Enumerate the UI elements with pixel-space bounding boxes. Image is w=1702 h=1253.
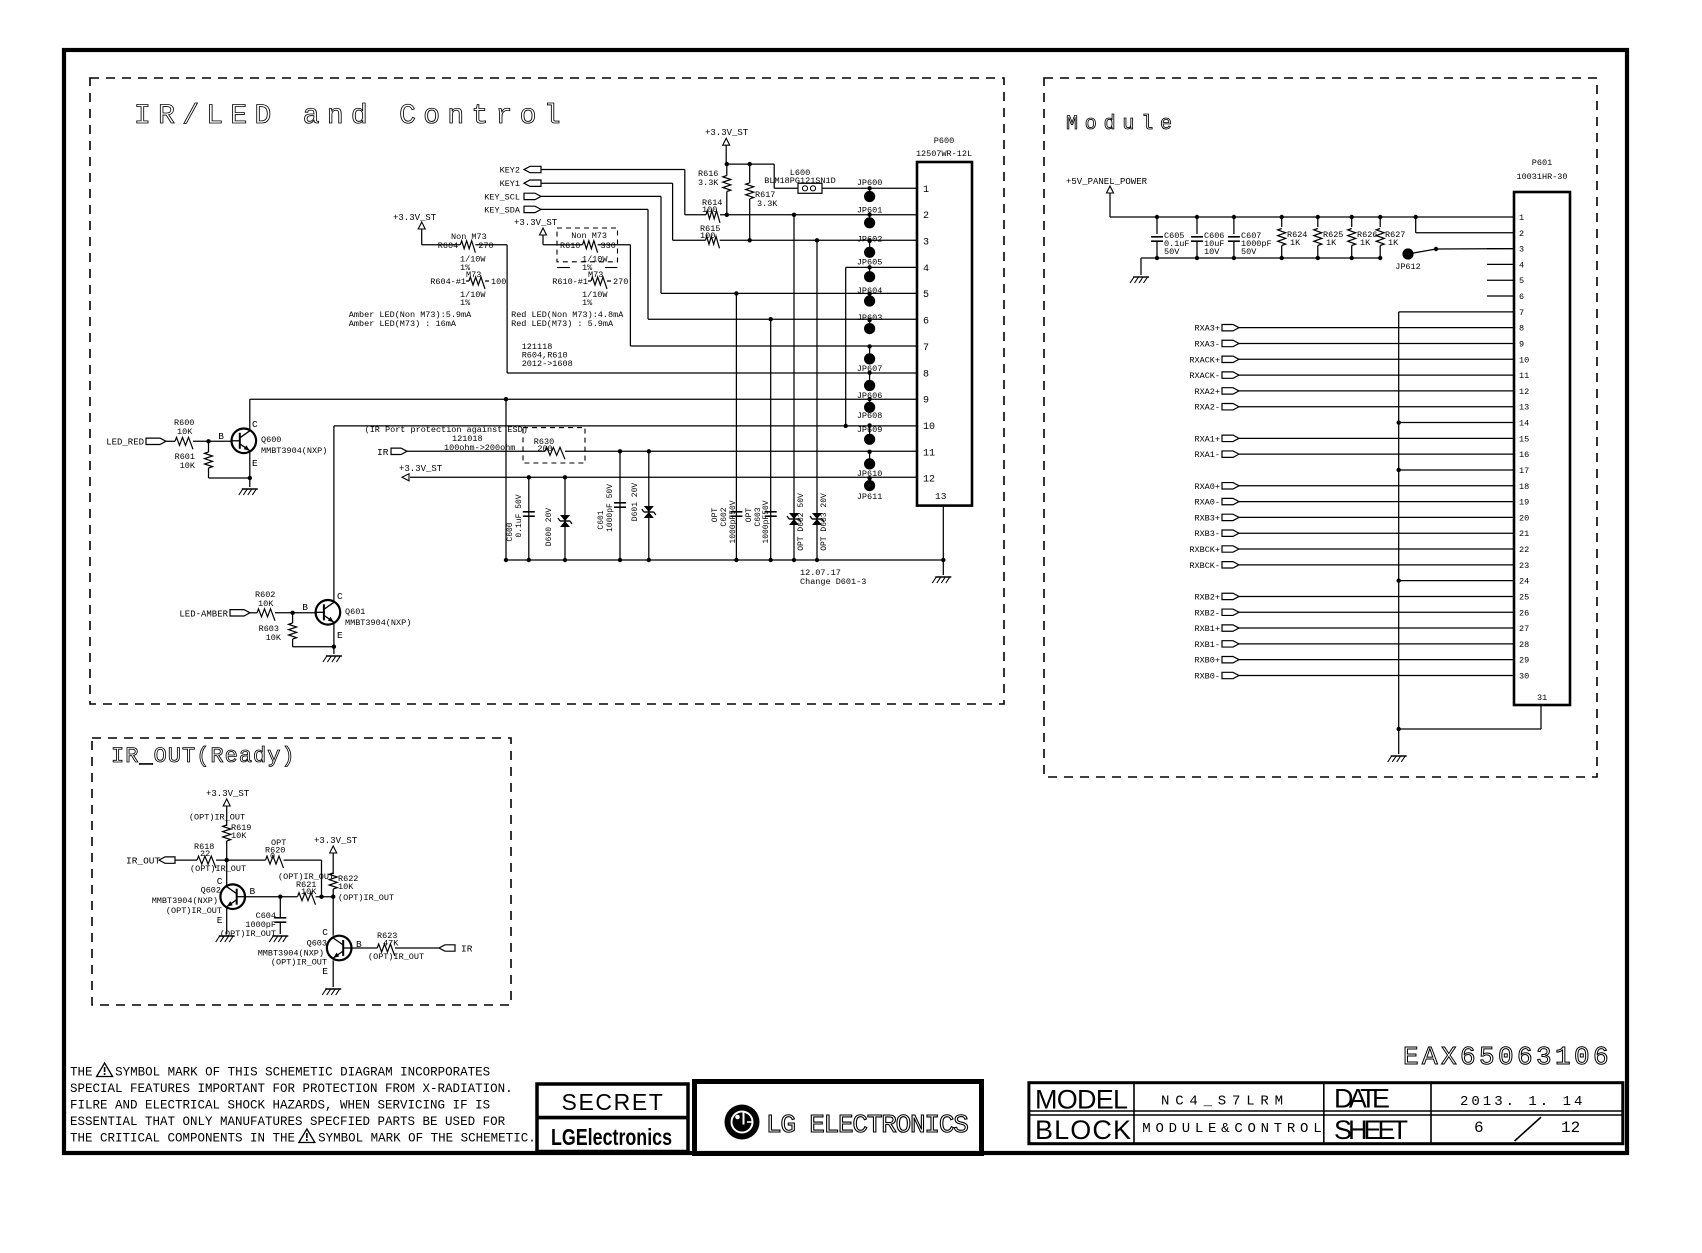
svg-text:MODEL: MODEL [1035,1085,1128,1115]
svg-text:16: 16 [1519,450,1529,460]
svg-text:12: 12 [1561,1119,1580,1137]
svg-text:(OPT)IR_OUT: (OPT)IR_OUT [368,952,424,962]
svg-text:11: 11 [1519,371,1529,381]
svg-text:RXA1+: RXA1+ [1194,434,1220,444]
svg-text:14: 14 [1519,419,1529,429]
svg-text:19: 19 [1519,498,1529,508]
svg-text:OPT: OPT [745,508,754,523]
svg-text:JP600: JP600 [857,178,883,188]
svg-text:4: 4 [923,264,929,275]
svg-text:C: C [252,419,258,430]
svg-text:10: 10 [1519,355,1529,365]
svg-text:Q602: Q602 [201,886,221,896]
svg-text:MMBT3904(NXP): MMBT3904(NXP) [261,446,327,456]
svg-text:100: 100 [702,205,717,215]
svg-text:15: 15 [1519,434,1529,444]
svg-text:11: 11 [923,448,935,459]
svg-text:LED-AMBER: LED-AMBER [179,609,228,619]
svg-text:200: 200 [537,444,552,454]
svg-text:17: 17 [1519,466,1529,476]
svg-text:330: 330 [601,241,616,251]
svg-text:SPECIAL FEATURES IMPORTANT FOR: SPECIAL FEATURES IMPORTANT FOR PROTECTIO… [70,1082,513,1096]
svg-text:+5V_PANEL_POWER: +5V_PANEL_POWER [1066,177,1148,187]
svg-text:IR_OUT: IR_OUT [126,856,161,867]
svg-text:B: B [250,886,256,897]
svg-text:26: 26 [1519,608,1529,618]
svg-text:SHEET: SHEET [1334,1115,1408,1145]
svg-text:(OPT)IR_OUT: (OPT)IR_OUT [190,864,246,874]
svg-text:10K: 10K [338,882,354,892]
svg-text:RXB1-: RXB1- [1194,640,1220,650]
svg-text:1K: 1K [1360,238,1371,248]
svg-text:RXACK-: RXACK- [1189,371,1220,381]
svg-text:JP601: JP601 [857,205,883,215]
svg-text:+3.3V_ST: +3.3V_ST [314,836,358,846]
svg-text:R610-#1: R610-#1 [552,277,588,287]
svg-text:+3.3V_ST: +3.3V_ST [393,213,437,223]
svg-text:25: 25 [1519,592,1529,602]
svg-text:0.1uF 50V: 0.1uF 50V [515,494,524,537]
svg-text:THE: THE [70,1066,93,1080]
svg-text:1K: 1K [1326,238,1337,248]
svg-text:RXB0-: RXB0- [1194,671,1220,681]
svg-text:12: 12 [923,475,935,486]
svg-text:LED_RED: LED_RED [106,438,144,448]
svg-text:FILRE AND ELECTRICAL SHOCK HAZ: FILRE AND ELECTRICAL SHOCK HAZARDS, WHEN… [70,1099,490,1113]
svg-text:C602: C602 [720,507,729,526]
svg-text:RXB0+: RXB0+ [1194,656,1220,666]
svg-text:13: 13 [935,491,947,502]
svg-text:KEY2: KEY2 [500,166,520,176]
svg-text:1000pF50V: 1000pF50V [762,500,771,543]
svg-text:22: 22 [200,849,210,859]
svg-text:100: 100 [491,277,506,287]
svg-text:R604: R604 [438,241,458,251]
svg-text:4: 4 [1519,260,1524,270]
svg-text:6: 6 [1474,1119,1484,1137]
svg-text:KEY_SDA: KEY_SDA [484,205,521,215]
svg-text:10K: 10K [231,831,247,841]
svg-text:1K: 1K [1388,238,1399,248]
svg-text:1000pF 50V: 1000pF 50V [606,484,615,532]
svg-text:30: 30 [1519,671,1529,681]
svg-text:JP602: JP602 [857,235,883,245]
svg-text:2: 2 [923,211,929,222]
svg-text:(OPT)IR_OUT: (OPT)IR_OUT [166,906,222,916]
svg-text:3.3K: 3.3K [698,178,719,188]
svg-text:24: 24 [1519,577,1529,587]
svg-text:JP605: JP605 [857,258,883,268]
svg-text:22: 22 [1519,545,1529,555]
svg-text:21: 21 [1519,529,1529,539]
svg-text:Q600: Q600 [261,435,281,445]
svg-text:+3.3V_ST: +3.3V_ST [514,218,558,228]
svg-text:50V: 50V [1241,247,1257,257]
svg-text:9: 9 [923,396,929,407]
svg-text:LG ELECTRONICS: LG ELECTRONICS [766,1110,968,1140]
svg-text:2: 2 [1519,229,1524,239]
svg-text:M73: M73 [466,270,481,280]
svg-text:2012->1608: 2012->1608 [522,359,573,369]
svg-text:R604-#1: R604-#1 [430,277,466,287]
svg-text:OPT: OPT [711,508,720,523]
svg-text:(OPT)IR_OUT: (OPT)IR_OUT [338,893,394,903]
svg-text:Q603: Q603 [307,939,327,949]
svg-text:+3.3V_ST: +3.3V_ST [705,128,749,138]
svg-text:IR_OUT(Ready): IR_OUT(Ready) [111,744,296,769]
svg-text:29: 29 [1519,656,1529,666]
svg-text:10031HR-30: 10031HR-30 [1516,172,1567,182]
svg-text:R610: R610 [560,241,580,251]
svg-text:RXB3-: RXB3- [1194,529,1220,539]
svg-text:6: 6 [1519,292,1524,302]
svg-text:JP603: JP603 [857,313,883,323]
svg-text:JP604: JP604 [857,286,883,296]
svg-text:MMBT3904(NXP): MMBT3904(NXP) [345,618,411,628]
svg-text:1: 1 [923,185,929,196]
svg-text:IR: IR [377,447,389,458]
svg-text:RXB1+: RXB1+ [1194,624,1220,634]
svg-text:SECRET: SECRET [562,1089,665,1115]
svg-text:3.3K: 3.3K [757,199,778,209]
svg-text:27: 27 [1519,624,1529,634]
svg-text:3: 3 [1519,245,1524,255]
svg-text:RXA3+: RXA3+ [1194,324,1220,334]
svg-text:RXA1-: RXA1- [1194,450,1220,460]
svg-text:10K: 10K [177,427,193,437]
svg-text:JP611: JP611 [857,492,883,502]
svg-text:RXBCK+: RXBCK+ [1189,545,1220,555]
svg-text:Amber LED(M73) : 16mA: Amber LED(M73) : 16mA [349,319,457,329]
svg-text:THE CRITICAL COMPONENTS IN THE: THE CRITICAL COMPONENTS IN THE [70,1132,295,1146]
svg-text:E: E [322,966,328,977]
svg-text:28: 28 [1519,640,1529,650]
svg-text:(IR Port protection against ES: (IR Port protection against ESD) [365,425,528,435]
svg-text:RXA2+: RXA2+ [1194,387,1220,397]
svg-text:7: 7 [923,343,929,354]
svg-text:9: 9 [1519,339,1524,349]
svg-text:Red LED(M73) : 5.9mA: Red LED(M73) : 5.9mA [511,319,614,329]
svg-text:C600: C600 [506,522,515,541]
svg-text:(OPT)IR_OUT: (OPT)IR_OUT [189,813,245,823]
svg-text:P601: P601 [1532,158,1552,168]
svg-text:KEY_SCL: KEY_SCL [484,192,520,202]
svg-text:SYMBOL MARK OF THE SCHEMETIC.: SYMBOL MARK OF THE SCHEMETIC. [318,1132,536,1146]
svg-text:IR: IR [461,944,473,955]
svg-text:RXA2-: RXA2- [1194,403,1220,413]
svg-text:OPT D603 20V: OPT D603 20V [820,493,829,551]
svg-text:BLOCK: BLOCK [1035,1115,1131,1145]
svg-text:E: E [217,915,223,926]
svg-text:3: 3 [923,238,929,249]
svg-text:IR/LED and Control: IR/LED and Control [134,101,568,132]
svg-text:1%: 1% [582,298,593,308]
svg-text:KEY1: KEY1 [500,179,520,189]
svg-text:Change D601-3: Change D601-3 [800,577,866,587]
svg-text:10K: 10K [258,599,274,609]
svg-text:10K: 10K [180,461,196,471]
svg-text:B: B [302,602,308,613]
svg-text:C: C [337,591,343,602]
svg-text:270: 270 [478,241,493,251]
svg-text:JP608: JP608 [857,411,883,421]
svg-text:47K: 47K [383,939,399,949]
svg-text:R620: R620 [265,846,285,856]
svg-text:P600: P600 [934,136,954,146]
svg-text:RXA3-: RXA3- [1194,339,1220,349]
svg-text:8: 8 [923,369,929,380]
svg-text:LGElectronics: LGElectronics [551,1124,672,1150]
svg-text:10: 10 [923,422,935,433]
svg-text:RXA0+: RXA0+ [1194,482,1220,492]
svg-text:(OPT)IR_OUT: (OPT)IR_OUT [220,929,276,939]
svg-text:Non M73: Non M73 [571,231,607,241]
svg-text:5: 5 [1519,276,1524,286]
svg-text:5: 5 [923,290,929,301]
svg-text:MMBT3904(NXP): MMBT3904(NXP) [152,896,218,906]
svg-text:8: 8 [1519,324,1524,334]
svg-text:Module: Module [1066,113,1179,136]
svg-text:E: E [252,458,258,469]
svg-text:13: 13 [1519,403,1529,413]
svg-text:(OPT)IR_OUT: (OPT)IR_OUT [271,958,327,968]
svg-text:1K: 1K [1290,238,1301,248]
svg-text:270: 270 [613,277,628,287]
svg-text:10V: 10V [1204,247,1220,257]
svg-text:12: 12 [1519,387,1529,397]
svg-text:EAX65063106: EAX65063106 [1403,1042,1612,1072]
svg-text:1%: 1% [460,298,471,308]
svg-text:100ohm->200ohm: 100ohm->200ohm [444,443,515,453]
svg-text:50V: 50V [1164,247,1180,257]
svg-text:OPT D602 50V: OPT D602 50V [797,493,806,551]
svg-text:31: 31 [1537,693,1547,703]
svg-text:18: 18 [1519,482,1529,492]
svg-text:JP609: JP609 [857,425,883,435]
svg-text:23: 23 [1519,561,1529,571]
svg-text:D600 20V: D600 20V [545,508,554,547]
svg-text:10K: 10K [266,633,282,643]
svg-text:1000pF50V: 1000pF50V [729,500,738,543]
svg-text:C: C [322,927,328,938]
svg-text:RXB2+: RXB2+ [1194,592,1220,602]
svg-text:NC4_S7LRM: NC4_S7LRM [1161,1094,1289,1110]
svg-text:12507WR-12L: 12507WR-12L [916,149,972,159]
svg-text:RXA0-: RXA0- [1194,498,1220,508]
svg-text:RXACK+: RXACK+ [1189,355,1220,365]
svg-text:7: 7 [1519,308,1524,318]
svg-text:C601: C601 [597,510,606,529]
svg-text:DATE: DATE [1334,1084,1390,1114]
svg-text:+3.3V_ST: +3.3V_ST [399,464,443,474]
svg-text:M73: M73 [588,270,603,280]
svg-text:JP612: JP612 [1395,262,1421,272]
svg-text:RXB2-: RXB2- [1194,608,1220,618]
svg-text:ESSENTIAL THAT ONLY MANUFATURE: ESSENTIAL THAT ONLY MANUFATURES SPECFIED… [70,1115,506,1129]
svg-text:SYMBOL MARK OF THIS SCHEMETIC: SYMBOL MARK OF THIS SCHEMETIC DIAGRAM IN… [115,1066,490,1080]
svg-text:D601 20V: D601 20V [631,483,640,522]
svg-text:BLM18PG121SN1D: BLM18PG121SN1D [764,176,835,186]
svg-text:RXBCK-: RXBCK- [1189,561,1220,571]
svg-text:RXB3+: RXB3+ [1194,513,1220,523]
svg-text:2013. 1. 14: 2013. 1. 14 [1460,1094,1585,1110]
svg-text:1: 1 [1519,213,1524,223]
svg-text:E: E [337,630,343,641]
svg-text:Q601: Q601 [345,607,365,617]
svg-text:+3.3V_ST: +3.3V_ST [206,789,250,799]
svg-text:B: B [218,431,224,442]
svg-text:20: 20 [1519,513,1529,523]
svg-text:6: 6 [923,317,929,328]
svg-text:100: 100 [700,231,715,241]
